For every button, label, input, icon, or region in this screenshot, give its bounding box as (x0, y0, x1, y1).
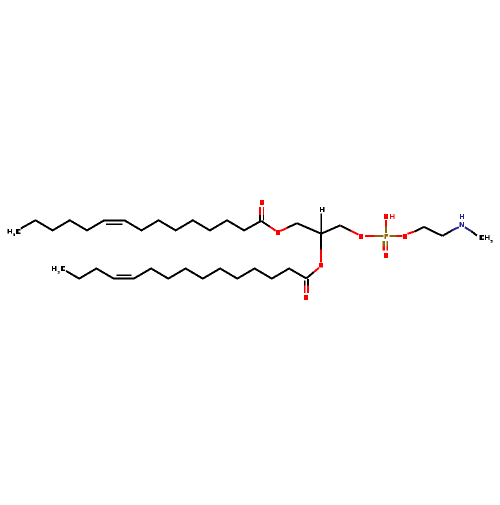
bond C15=O carbonyl double lines (top ester) (260, 207, 264, 221)
wire glycerol backbone CH2a-CH-CH2b (297, 223, 340, 234)
bond N-CH3 (465, 227, 477, 235)
label H on nitrogen (460, 214, 464, 219)
wire bottom acyl chain zigzag C15'..C2' (66, 269, 306, 279)
bond central C-O2 sn-2 ester (320, 234, 322, 263)
bond P-OH (385, 220, 387, 233)
label H on central carbon (320, 207, 324, 212)
atom P phosphorus (385, 234, 388, 239)
bond O1p-P (365, 235, 384, 237)
bond C15-O1 ester (261, 221, 276, 231)
atom O2p phosphoester oxygen 2 (403, 234, 407, 239)
bond P-O2p (389, 235, 402, 237)
bond central C-H (320, 213, 322, 233)
bond CH2d-N (442, 227, 459, 236)
bond O2p-CH2c (407, 227, 424, 234)
atom O carbonyl top (260, 200, 264, 205)
atom O2 ester oxygen sn-2 (319, 263, 323, 268)
wire top acyl chain zigzag C2..C15 (21, 220, 262, 230)
label CH3 N-methyl (480, 235, 493, 243)
atom O carbonyl bottom (304, 295, 308, 300)
label H3C methyl of top acyl chain (8, 229, 21, 236)
label OH hydroxyl on phosphorus (384, 214, 394, 219)
atom N nitrogen (460, 222, 464, 227)
atom O1 ester oxygen (276, 230, 280, 235)
label H3C methyl of bottom acyl chain (52, 266, 65, 273)
bond O1-CH2a (280, 223, 297, 231)
bond P=O double lines (384, 241, 388, 251)
wire bottom chain cis double bond inner line (117, 274, 132, 276)
bond C15'=O carbonyl double lines (bottom ester) (305, 279, 308, 293)
atom O of P=O (384, 253, 388, 258)
bond O2-C15' (306, 268, 319, 279)
wire top chain cis double bond inner line (106, 223, 123, 225)
bond CH2b-O1p (340, 225, 358, 234)
atom O1p phosphoester oxygen (359, 234, 363, 239)
wire ethanolamine CH2c-CH2d (424, 227, 442, 236)
